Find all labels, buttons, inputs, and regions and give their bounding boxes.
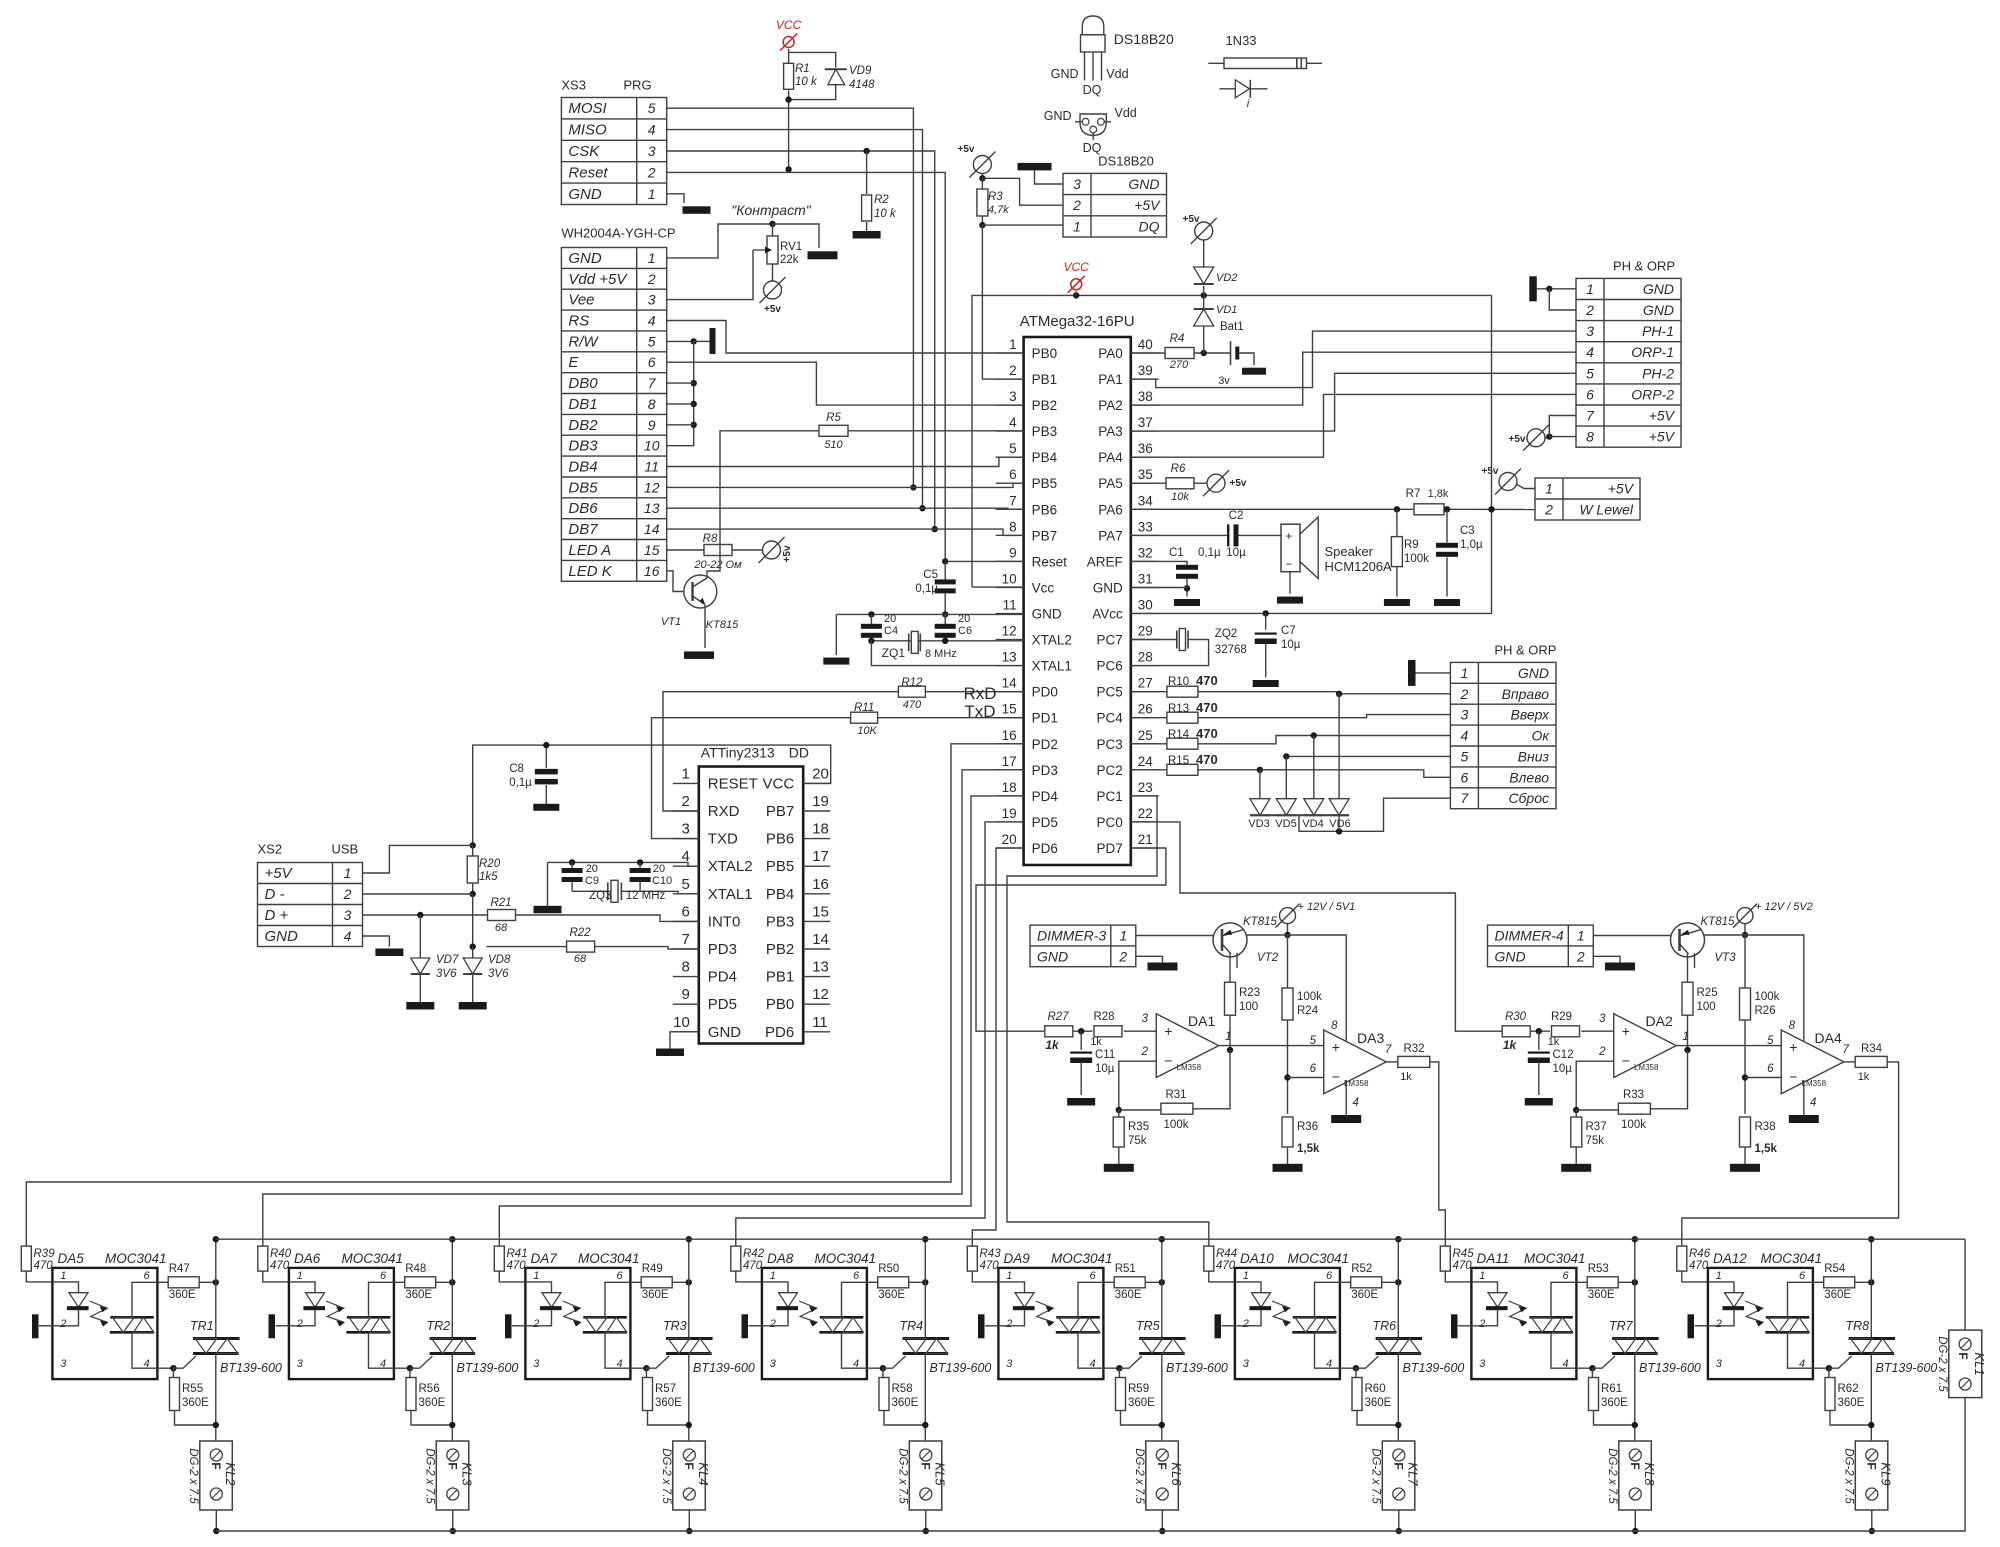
transistor triac inside DA7 <box>583 1282 631 1368</box>
wire LCD R/W to gnd bar <box>667 338 697 344</box>
resistor R24 100k <box>1282 935 1322 1020</box>
svg-text:7: 7 <box>681 931 689 948</box>
svg-text:DA7: DA7 <box>531 1251 558 1266</box>
svg-text:PD4: PD4 <box>1032 789 1059 804</box>
svg-text:3V6: 3V6 <box>488 968 509 980</box>
wire VD9 anode to R1 bottom node <box>789 85 836 100</box>
capacitor C6 20 <box>935 613 972 641</box>
transistor TR8 BT139-600 <box>1846 1319 1938 1375</box>
svg-text:BT139-600: BT139-600 <box>1639 1361 1701 1375</box>
svg-text:1: 1 <box>1545 481 1553 497</box>
svg-text:2: 2 <box>1598 1046 1606 1058</box>
svg-text:DB3: DB3 <box>568 438 598 455</box>
resistor R62 360E <box>1825 1368 1865 1410</box>
wire DA3 -in <box>1745 1077 1781 1079</box>
resistor R47 360E <box>168 1263 199 1301</box>
svg-text:30: 30 <box>1138 598 1153 613</box>
wire diode common stub <box>1338 815 1340 831</box>
wire RV1 bottom to +5v <box>772 264 774 281</box>
svg-text:18: 18 <box>812 821 829 838</box>
svg-text:17: 17 <box>1002 754 1017 769</box>
wire phase bus to KL1 <box>1964 1239 1966 1330</box>
svg-text:PC6: PC6 <box>1097 659 1123 674</box>
svg-text:21: 21 <box>1138 832 1153 847</box>
wire VT emitter to R23 <box>1694 953 1696 968</box>
svg-text:KL3: KL3 <box>460 1462 475 1486</box>
svg-text:DA10: DA10 <box>1240 1251 1274 1266</box>
connector KL4 DG-2x7.5 <box>660 1441 711 1510</box>
svg-text:3: 3 <box>1006 1358 1013 1370</box>
svg-text:R12: R12 <box>901 677 923 689</box>
resistor R43 470 <box>967 1246 1001 1272</box>
svg-text:R11: R11 <box>854 702 874 714</box>
resistor R5 510 <box>819 412 848 451</box>
svg-text:R47: R47 <box>169 1263 190 1275</box>
connector KL5 DG-2x7.5 <box>897 1441 948 1510</box>
svg-text:VCC: VCC <box>1064 260 1090 274</box>
svg-text:XTAL1: XTAL1 <box>1032 659 1072 674</box>
svg-text:DA9: DA9 <box>1004 1251 1031 1266</box>
svg-text:Vcc: Vcc <box>1032 581 1055 596</box>
wire opto arrows <box>1036 1301 1054 1327</box>
svg-text:PD2: PD2 <box>1032 737 1058 752</box>
resistor R57 360E <box>643 1368 683 1410</box>
svg-text:12 MHz: 12 MHz <box>626 890 666 902</box>
wire DA1 -in <box>1116 1061 1157 1113</box>
svg-text:3: 3 <box>344 907 352 923</box>
svg-text:VD9: VD9 <box>849 65 872 77</box>
svg-text:D -: D - <box>265 886 285 903</box>
connector KL2 DG-2x7.5 <box>187 1441 238 1510</box>
svg-text:RESET: RESET <box>708 775 758 792</box>
svg-text:Vdd: Vdd <box>1115 106 1137 120</box>
connector WH2004A-YGH-CP LCD <box>561 226 675 582</box>
wire VD2 to VCC rail <box>1203 286 1205 295</box>
svg-text:R33: R33 <box>1623 1089 1644 1101</box>
wire MOSI row <box>667 108 914 487</box>
svg-text:R60: R60 <box>1365 1383 1386 1395</box>
resistor R51 360E <box>1114 1263 1145 1301</box>
svg-text:TxD: TxD <box>964 702 995 721</box>
svg-text:10µ: 10µ <box>1281 639 1301 651</box>
svg-text:1: 1 <box>1716 1270 1722 1282</box>
svg-text:PA5: PA5 <box>1098 476 1123 491</box>
svg-text:DA8: DA8 <box>767 1251 794 1266</box>
diode LED inside DA7 <box>525 1282 561 1326</box>
svg-text:−: − <box>1286 559 1293 571</box>
svg-text:3: 3 <box>1142 1013 1149 1025</box>
svg-text:10 k: 10 k <box>795 76 818 88</box>
wire rail to ground <box>547 862 549 905</box>
wire C2 to speaker <box>1239 534 1282 536</box>
wire R24 to pin6 node <box>1742 1020 1748 1114</box>
svg-text:8 MHz: 8 MHz <box>925 648 957 660</box>
svg-text:0,1µ: 0,1µ <box>509 777 532 789</box>
svg-text:R44: R44 <box>1216 1248 1237 1260</box>
wire PC1 to channel6 <box>1007 796 1209 1246</box>
op-amp DA5 MOC3041 optotriac <box>52 1251 166 1379</box>
wire keypad gnd <box>1416 672 1451 674</box>
diode LED inside DA12 <box>1708 1282 1744 1326</box>
svg-text:22: 22 <box>1138 806 1153 821</box>
svg-text:8: 8 <box>1789 1020 1796 1032</box>
op-amp DA11 MOC3041 optotriac <box>1471 1251 1585 1379</box>
svg-text:3: 3 <box>1479 1358 1486 1370</box>
wire RxD line <box>663 692 1024 811</box>
resistor R33 100k <box>1618 1089 1650 1131</box>
svg-text:Сброс: Сброс <box>1508 790 1549 806</box>
svg-text:PRG: PRG <box>623 78 651 93</box>
svg-text:R45: R45 <box>1453 1248 1475 1260</box>
svg-text:12: 12 <box>644 479 660 495</box>
svg-text:3: 3 <box>1586 323 1594 339</box>
wire R48 to bus <box>436 1279 456 1285</box>
svg-text:+5v: +5v <box>1183 214 1200 225</box>
connector XS2 USB <box>258 842 363 947</box>
svg-text:6: 6 <box>1326 1270 1333 1282</box>
svg-text:470: 470 <box>1196 726 1218 741</box>
svg-text:PC3: PC3 <box>1097 737 1123 752</box>
svg-text:PH-2: PH-2 <box>1642 365 1674 381</box>
capacitor C3 1.0u <box>1436 509 1483 596</box>
wire R7 to W Lewel pin2 <box>1444 506 1535 512</box>
wire LCD DB4 to PB4 <box>667 457 1024 466</box>
svg-text:R48: R48 <box>405 1263 426 1275</box>
ground below R35 <box>1104 1164 1134 1172</box>
svg-text:2: 2 <box>296 1318 303 1330</box>
svg-text:20: 20 <box>586 863 598 875</box>
svg-text:4148: 4148 <box>849 79 875 91</box>
wire pin6 to R50 <box>867 1281 878 1283</box>
svg-text:31: 31 <box>1138 572 1153 587</box>
wire R58 to bus <box>884 1411 929 1429</box>
svg-text:15: 15 <box>812 903 829 920</box>
transistor TR4 BT139-600 <box>900 1319 992 1375</box>
capacitor C7 10u <box>1255 613 1301 677</box>
resistor R42 470 <box>731 1246 765 1272</box>
ground PH&ORP top pin1 <box>1529 276 1537 301</box>
svg-text:ATTiny2313: ATTiny2313 <box>701 745 775 761</box>
svg-text:C8: C8 <box>509 763 524 775</box>
svg-text:TR8: TR8 <box>1846 1319 1870 1333</box>
svg-text:360E: 360E <box>1128 1397 1155 1409</box>
wire gnd to rows 1-2 <box>1537 286 1576 310</box>
resistor R21 68 <box>488 897 516 934</box>
wire DQ to PB1 <box>982 225 1023 379</box>
wire KL to bottom bus <box>1396 1510 1402 1534</box>
svg-text:16: 16 <box>644 563 660 579</box>
ground below VT1 <box>684 651 714 659</box>
svg-text:4: 4 <box>344 928 352 944</box>
svg-text:1: 1 <box>1006 1270 1012 1282</box>
svg-text:39: 39 <box>1138 363 1153 378</box>
resistor R6 10k <box>1131 463 1194 503</box>
wire AREF to C1 <box>1131 561 1187 565</box>
ground below R36 <box>1730 1164 1760 1172</box>
connector KL8 DG-2x7.5 <box>1606 1441 1657 1510</box>
svg-text:9: 9 <box>1009 545 1017 560</box>
wire bus vertical <box>449 1236 455 1339</box>
svg-text:F: F <box>446 1462 460 1469</box>
svg-text:470: 470 <box>270 1260 290 1272</box>
svg-text:DA3: DA3 <box>1357 1030 1384 1046</box>
svg-text:R55: R55 <box>182 1383 203 1395</box>
svg-text:5: 5 <box>1009 441 1017 456</box>
svg-text:GND: GND <box>568 186 602 203</box>
svg-text:F: F <box>1628 1462 1642 1469</box>
svg-text:R54: R54 <box>1824 1263 1846 1275</box>
wire R62 to bus <box>1830 1411 1875 1429</box>
wire pin2 to bar <box>512 1325 525 1327</box>
wire R45 to pin1 <box>1445 1271 1471 1282</box>
connector KL3 DG-2x7.5 <box>424 1441 475 1510</box>
wire DB1 stub <box>667 403 694 405</box>
wire +5V rail over ATTiny <box>470 742 831 849</box>
wire VT1 emitter to ground <box>704 605 706 649</box>
wire KL to bottom bus <box>1869 1510 1875 1534</box>
diode LED inside DA11 <box>1471 1282 1507 1326</box>
svg-text:+5V: +5V <box>1608 481 1635 497</box>
svg-text:6: 6 <box>1562 1270 1569 1282</box>
wire R49 to bus <box>672 1279 692 1285</box>
svg-text:1,8k: 1,8k <box>1428 488 1449 500</box>
wire opto arrows <box>1509 1301 1527 1327</box>
svg-text:5: 5 <box>1586 365 1594 381</box>
svg-text:KT815: KT815 <box>1701 916 1735 928</box>
power VCC symbol above ATMega <box>1064 260 1090 293</box>
wire pin6 to R47 <box>157 1281 168 1283</box>
svg-text:DB7: DB7 <box>568 521 598 538</box>
svg-text:GND: GND <box>265 928 299 945</box>
connector DIMMER-4 <box>1488 925 1594 967</box>
ground below VD8 <box>459 1002 487 1010</box>
svg-text:Vdd: Vdd <box>1106 67 1128 81</box>
transistor TR5 BT139-600 <box>1136 1319 1228 1375</box>
resistor R25 100 <box>1682 954 1718 1016</box>
svg-text:PA3: PA3 <box>1098 424 1123 439</box>
svg-text:10: 10 <box>673 1014 690 1031</box>
svg-text:20: 20 <box>812 765 829 782</box>
svg-text:470: 470 <box>1196 700 1218 715</box>
svg-text:11: 11 <box>1003 598 1017 613</box>
svg-text:+5v: +5v <box>782 545 793 562</box>
svg-text:DA2: DA2 <box>1646 1013 1673 1029</box>
svg-text:+5v: +5v <box>1509 434 1526 445</box>
svg-text:19: 19 <box>1002 806 1017 821</box>
wire GND rail to ground <box>835 614 837 655</box>
wire R22 to PD3 <box>487 947 699 949</box>
svg-text:20: 20 <box>1002 832 1017 847</box>
wire LCD Vee to RV1 wiper <box>667 250 753 300</box>
wire LCD RS to PB0 <box>667 321 1024 354</box>
svg-text:1k: 1k <box>1045 1038 1060 1052</box>
svg-text:DD: DD <box>789 745 809 761</box>
wire Reset row <box>667 172 1024 561</box>
svg-text:7: 7 <box>1385 1044 1392 1056</box>
svg-text:MOC3041: MOC3041 <box>815 1251 877 1266</box>
svg-text:KL9: KL9 <box>1879 1462 1894 1485</box>
ground right of RV1 <box>808 251 838 259</box>
svg-text:R49: R49 <box>642 1263 663 1275</box>
resistor R34 1k <box>1844 1043 1887 1083</box>
svg-text:DG-2 x 7.5: DG-2 x 7.5 <box>424 1448 436 1504</box>
wire pin4 gate <box>157 1356 196 1371</box>
wire GND pin2 <box>1593 956 1620 962</box>
capacitor C1 0.1u <box>1169 547 1221 597</box>
label TxD <box>964 702 995 721</box>
svg-text:2: 2 <box>1118 948 1127 964</box>
ground DIMMER-4 GND <box>1605 963 1635 971</box>
svg-text:PB3: PB3 <box>766 913 794 930</box>
wire triac to KL <box>215 1354 217 1445</box>
transistor VT2 KT815 <box>1213 916 1279 964</box>
svg-text:1: 1 <box>648 186 656 202</box>
wire R52 to bus <box>1382 1279 1402 1285</box>
wire pin6 to R52 <box>1340 1281 1351 1283</box>
svg-text:PD3: PD3 <box>1032 763 1058 778</box>
wire XTAL2 rail ATTiny <box>548 859 699 866</box>
svg-text:+5v: +5v <box>958 144 975 155</box>
svg-text:3: 3 <box>1009 389 1017 404</box>
svg-text:R46: R46 <box>1689 1248 1711 1260</box>
svg-text:ORP-1: ORP-1 <box>1631 344 1674 360</box>
svg-text:100k: 100k <box>1621 1119 1646 1131</box>
svg-text:6: 6 <box>1461 769 1469 785</box>
svg-text:PD6: PD6 <box>1032 841 1058 856</box>
svg-text:R14: R14 <box>1168 729 1190 741</box>
svg-text:PD5: PD5 <box>708 996 737 1013</box>
resistor R3 4.7k <box>977 178 1009 216</box>
svg-text:C11: C11 <box>1095 1049 1115 1061</box>
wire R41 to pin1 <box>499 1271 525 1282</box>
resistor R38 1.5k <box>1740 1117 1778 1155</box>
svg-text:ZQ1: ZQ1 <box>882 646 906 660</box>
svg-text:40: 40 <box>1138 337 1153 352</box>
wire PA3 to PH-2 <box>1131 373 1576 431</box>
wire R24 to pin6 node <box>1284 1020 1290 1114</box>
svg-text:BT139-600: BT139-600 <box>220 1361 282 1375</box>
svg-text:+: + <box>1332 1039 1340 1055</box>
wire bus vertical <box>922 1236 928 1339</box>
svg-text:28: 28 <box>1138 650 1153 665</box>
svg-text:3: 3 <box>1599 1013 1606 1025</box>
svg-text:PB7: PB7 <box>766 803 794 820</box>
wire pin2 to bar <box>276 1325 289 1327</box>
op-amp DA7 MOC3041 optotriac <box>525 1251 639 1379</box>
svg-text:DG-2 x 7.5: DG-2 x 7.5 <box>1606 1448 1618 1504</box>
svg-text:R38: R38 <box>1755 1121 1776 1133</box>
svg-text:Speaker: Speaker <box>1325 544 1374 559</box>
diode 1N33 symbol <box>1220 80 1268 110</box>
resistor R36 1.5k <box>1282 1117 1320 1155</box>
svg-text:GND: GND <box>1044 109 1072 123</box>
svg-text:360E: 360E <box>1824 1289 1851 1301</box>
wire R/W bar link <box>694 340 710 342</box>
wire DA3 -in <box>1288 1077 1324 1079</box>
svg-text:KL1: KL1 <box>1972 1352 1987 1375</box>
resistor R46 470 <box>1677 1246 1711 1272</box>
svg-text:VT2: VT2 <box>1257 952 1279 964</box>
svg-text:C2: C2 <box>1229 510 1244 522</box>
zener VD7 3V6 <box>411 915 459 1002</box>
resistor R37 75k <box>1571 1110 1607 1147</box>
wire speaker minus to ground <box>1289 572 1291 594</box>
svg-text:100k: 100k <box>1404 553 1429 565</box>
diode LED inside DA8 <box>762 1282 798 1326</box>
wire +12V rail <box>1704 924 1804 1042</box>
wire VCC rail <box>972 292 1492 587</box>
wire PD5 to channel4 <box>736 822 1024 1246</box>
resistor R15 470 <box>1131 752 1218 775</box>
svg-text:PC4: PC4 <box>1097 711 1124 726</box>
svg-text:R56: R56 <box>419 1383 440 1395</box>
svg-text:F: F <box>682 1462 696 1469</box>
svg-text:DIMMER-3: DIMMER-3 <box>1037 928 1106 944</box>
svg-text:MOC3041: MOC3041 <box>1288 1251 1350 1266</box>
svg-text:TR6: TR6 <box>1373 1319 1397 1333</box>
svg-text:3v: 3v <box>1218 375 1230 387</box>
svg-text:1: 1 <box>1577 928 1585 944</box>
wire PA1 to PH-1 <box>1131 331 1576 388</box>
svg-text:13: 13 <box>644 500 660 516</box>
wire opto arrows <box>1745 1301 1763 1327</box>
svg-text:PA6: PA6 <box>1098 502 1123 517</box>
svg-text:0,1µ: 0,1µ <box>915 583 938 595</box>
crystal ZQ3 12MHz <box>572 880 699 902</box>
svg-text:KT815: KT815 <box>1243 916 1277 928</box>
wire pin6 to R53 <box>1576 1281 1587 1283</box>
wire ATTiny GND pin10 <box>670 1032 699 1049</box>
svg-text:2: 2 <box>769 1318 776 1330</box>
svg-text:R6: R6 <box>1171 463 1186 475</box>
connector XS3 PRG <box>561 78 666 205</box>
wire R44 to pin1 <box>1209 1271 1235 1282</box>
svg-text:R50: R50 <box>878 1263 899 1275</box>
wire triac to KL <box>1634 1354 1636 1445</box>
svg-text:VD4: VD4 <box>1302 818 1323 830</box>
junction dots XS3 bus <box>910 484 948 564</box>
svg-text:GND: GND <box>708 1024 742 1041</box>
wire R1 bottom to Reset row <box>785 90 791 172</box>
svg-text:C6: C6 <box>958 625 972 637</box>
svg-text:DA12: DA12 <box>1713 1251 1747 1266</box>
wire PC2 to keypad Vniz <box>1198 753 1450 773</box>
svg-text:KL8: KL8 <box>1642 1462 1657 1486</box>
svg-text:R52: R52 <box>1351 1263 1372 1275</box>
svg-text:Вверх: Вверх <box>1511 707 1550 723</box>
svg-text:PD0: PD0 <box>1032 685 1058 700</box>
wire R3 to DQ <box>979 216 1063 228</box>
connector KL7 DG-2x7.5 <box>1370 1441 1421 1510</box>
wire VCC to R1 and VD9 <box>789 49 836 68</box>
wire LEDA to R8 <box>667 549 704 551</box>
svg-text:+: + <box>1789 1039 1797 1055</box>
svg-text:9: 9 <box>681 986 689 1003</box>
wire pin2 to bar <box>39 1325 52 1327</box>
svg-text:1: 1 <box>1225 1031 1231 1043</box>
crystal ZQ1 8MHz <box>882 631 957 660</box>
svg-text:HCM1206A: HCM1206A <box>1325 559 1393 574</box>
wire KL to bottom bus <box>923 1510 929 1534</box>
wire DA1 out <box>1219 1046 1341 1048</box>
resistor R12 470 <box>898 677 925 711</box>
wire LEDK to VT1 base <box>667 571 693 592</box>
svg-text:DG-2 x 7.5: DG-2 x 7.5 <box>660 1448 672 1504</box>
svg-text:PB2: PB2 <box>766 941 794 958</box>
ground below speaker <box>1277 597 1303 604</box>
wire TxD line <box>652 718 1024 839</box>
svg-text:LM358: LM358 <box>1177 1063 1202 1072</box>
